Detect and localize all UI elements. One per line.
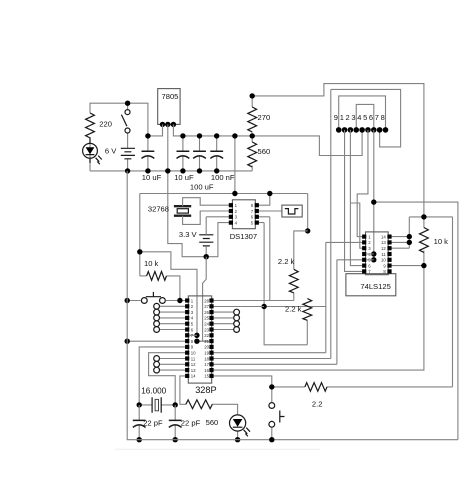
svg-text:2: 2	[191, 304, 194, 309]
svg-text:2: 2	[368, 240, 371, 245]
svg-text:16.000: 16.000	[141, 386, 166, 395]
svg-text:10 k: 10 k	[144, 259, 159, 268]
svg-text:28: 28	[204, 298, 209, 303]
svg-text:9: 9	[334, 113, 338, 122]
svg-text:3: 3	[235, 215, 238, 220]
svg-text:11: 11	[381, 252, 386, 257]
svg-text:14: 14	[191, 374, 196, 379]
svg-text:9: 9	[383, 263, 386, 268]
svg-text:3: 3	[368, 246, 371, 251]
svg-text:6: 6	[369, 113, 373, 122]
svg-text:3: 3	[191, 310, 194, 315]
svg-text:19: 19	[204, 351, 209, 356]
svg-text:25: 25	[204, 316, 209, 321]
svg-text:20: 20	[204, 345, 209, 350]
svg-text:22: 22	[204, 333, 209, 338]
svg-text:4: 4	[191, 316, 194, 321]
svg-text:14: 14	[381, 234, 386, 239]
svg-text:7: 7	[375, 113, 379, 122]
svg-text:100 uF: 100 uF	[190, 183, 214, 192]
svg-text:7805: 7805	[162, 92, 179, 101]
svg-text:6: 6	[191, 327, 194, 332]
svg-text:1: 1	[368, 234, 371, 239]
svg-text:270: 270	[258, 113, 271, 122]
svg-text:23: 23	[204, 327, 209, 332]
svg-text:2.2 k: 2.2 k	[278, 257, 295, 266]
svg-text:1: 1	[235, 203, 238, 208]
svg-text:13: 13	[381, 240, 386, 245]
svg-text:2.2: 2.2	[312, 399, 323, 408]
svg-text:1: 1	[191, 298, 194, 303]
svg-text:32768: 32768	[148, 205, 169, 214]
svg-text:10: 10	[381, 258, 386, 263]
svg-text:6 V: 6 V	[105, 147, 117, 156]
svg-text:5: 5	[363, 113, 367, 122]
svg-text:1: 1	[340, 113, 344, 122]
svg-text:15: 15	[204, 374, 209, 379]
svg-text:74LS125: 74LS125	[360, 282, 390, 291]
svg-text:2: 2	[235, 209, 238, 214]
svg-text:12: 12	[191, 362, 196, 367]
svg-text:100 nF: 100 nF	[211, 173, 235, 182]
svg-text:9: 9	[191, 345, 194, 350]
svg-text:24: 24	[204, 322, 209, 327]
svg-text:17: 17	[204, 362, 209, 367]
svg-text:8: 8	[191, 339, 194, 344]
svg-text:27: 27	[204, 304, 209, 309]
svg-text:10: 10	[191, 351, 196, 356]
svg-text:22 pF: 22 pF	[143, 418, 163, 427]
svg-text:5: 5	[251, 220, 254, 225]
svg-text:560: 560	[206, 418, 219, 427]
svg-text:10 uF: 10 uF	[142, 173, 162, 182]
svg-text:13: 13	[191, 368, 196, 373]
svg-text:8: 8	[251, 203, 254, 208]
svg-text:10 k: 10 k	[434, 237, 449, 246]
svg-text:22 pF: 22 pF	[181, 418, 201, 427]
svg-text:8: 8	[381, 113, 385, 122]
svg-text:7: 7	[251, 209, 254, 214]
svg-text:6: 6	[251, 215, 254, 220]
svg-text:DS1307: DS1307	[230, 232, 257, 241]
svg-text:18: 18	[204, 356, 209, 361]
svg-text:560: 560	[258, 147, 271, 156]
svg-text:21: 21	[204, 339, 209, 344]
svg-text:2.2 k: 2.2 k	[285, 305, 302, 314]
svg-text:328P: 328P	[195, 385, 216, 395]
svg-text:11: 11	[191, 356, 196, 361]
svg-text:3.3 V: 3.3 V	[179, 230, 198, 239]
svg-text:4: 4	[235, 220, 238, 225]
svg-text:10 uF: 10 uF	[174, 173, 194, 182]
svg-text:2: 2	[346, 113, 350, 122]
svg-text:16: 16	[204, 368, 209, 373]
svg-text:220: 220	[99, 120, 112, 129]
svg-text:5: 5	[191, 322, 194, 327]
svg-text:12: 12	[381, 246, 386, 251]
svg-text:26: 26	[204, 310, 209, 315]
svg-text:6: 6	[368, 263, 371, 268]
svg-text:4: 4	[357, 113, 361, 122]
svg-text:3: 3	[351, 113, 355, 122]
